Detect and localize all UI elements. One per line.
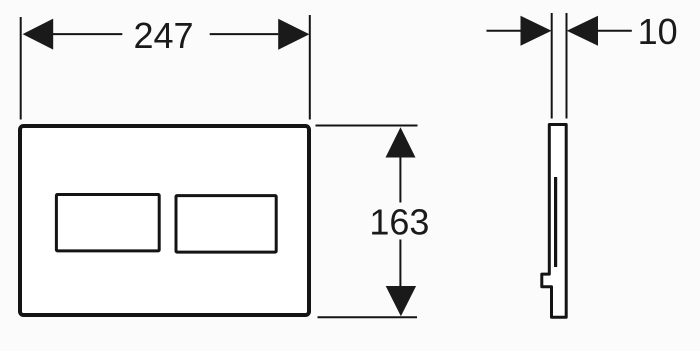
dimension 247: left extension line bbox=[20, 17, 22, 120]
dimension 163: bottom arrowhead bbox=[386, 286, 416, 316]
dimension 247: dimension line right segment bbox=[210, 33, 279, 35]
dimension 10: right extension line bbox=[566, 13, 568, 119]
dimension 10: right arrowhead (pointing left) bbox=[567, 16, 598, 46]
dimension 163: top extension line bbox=[316, 125, 418, 127]
dimension 247: left arrowhead bbox=[23, 19, 54, 50]
dimension 247: right extension line bbox=[309, 15, 311, 120]
svg-text:10: 10 bbox=[638, 11, 678, 52]
left flush button bbox=[56, 195, 159, 251]
dimension 10: left arrowhead (pointing right) bbox=[521, 16, 552, 46]
dimension 163: bottom extension line bbox=[318, 316, 418, 318]
dimension 10: right leader line bbox=[598, 30, 632, 32]
dimension 10: left leader line bbox=[487, 30, 521, 32]
dimension 163: top arrowhead bbox=[386, 127, 416, 157]
dimension 163: dimension line upper segment bbox=[399, 157, 401, 203]
right flush button bbox=[176, 196, 276, 253]
side view: inner profile line (button rod) bbox=[554, 177, 557, 267]
dimension 247: right arrowhead bbox=[278, 19, 309, 50]
dimension 247: dimension line left segment bbox=[53, 33, 123, 35]
dimension 163: dimension line lower segment bbox=[399, 240, 401, 287]
side view: plate profile outline with mounting clip bump bbox=[542, 125, 566, 318]
svg-text:163: 163 bbox=[369, 202, 429, 243]
front view: flush plate outer outline bbox=[20, 126, 309, 315]
svg-text:247: 247 bbox=[133, 15, 193, 56]
dimension 10: left extension line bbox=[551, 13, 553, 119]
